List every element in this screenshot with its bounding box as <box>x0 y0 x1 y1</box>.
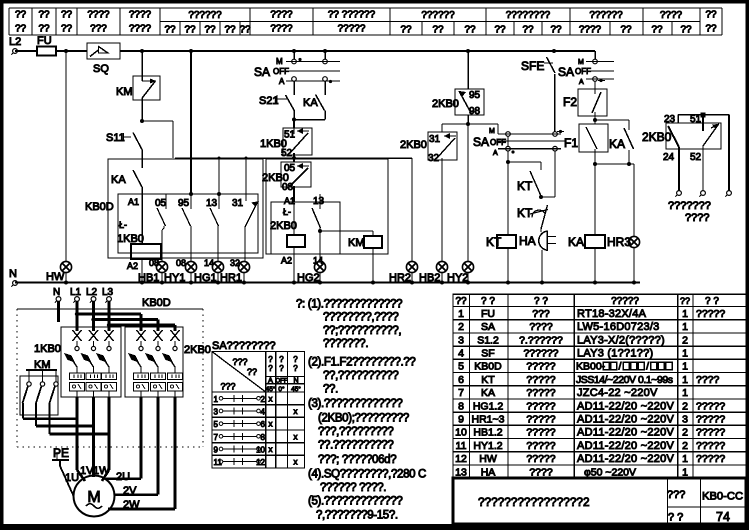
svg-text:?????: ????? <box>696 308 725 320</box>
phase feed L2 <box>92 301 95 331</box>
svg-text:HA: HA <box>481 466 496 478</box>
svg-text:??????: ?????? <box>589 10 623 21</box>
relay contact KA parallel <box>324 81 326 95</box>
svg-text:???????.: ???????. <box>323 338 368 350</box>
svg-text:???: ??? <box>532 308 550 320</box>
svg-text:HW: HW <box>479 453 497 465</box>
wire SA to F2 <box>594 81 596 89</box>
wire to contact 31-32 and SA mid <box>442 123 498 125</box>
svg-text:HR1~3: HR1~3 <box>472 414 505 426</box>
wire L2 bus <box>15 50 37 52</box>
lamp HR3 <box>633 164 635 236</box>
contact 13-14 <box>218 158 220 194</box>
lamp HY2 <box>467 124 469 262</box>
svg-text:10: 10 <box>256 445 265 454</box>
svg-text:08: 08 <box>176 258 186 268</box>
svg-text:12: 12 <box>256 458 265 467</box>
svg-text:?????: ????? <box>526 400 555 412</box>
svg-text:???: ??? <box>90 24 107 35</box>
svg-text:????: ???? <box>696 374 720 386</box>
lamp HG1 <box>212 261 223 272</box>
lamp HB2 <box>436 261 447 272</box>
svg-text:M: M <box>578 59 584 66</box>
svg-text:???????: ??????? <box>668 200 711 212</box>
svg-text:? ?: ? ? <box>481 296 495 307</box>
svg-text:3: 3 <box>682 414 688 426</box>
svg-text:???; ?????06d?: ???; ?????06d? <box>318 454 396 466</box>
phase feed L3 <box>108 301 111 331</box>
coil KA <box>594 164 596 235</box>
svg-text:3: 3 <box>458 334 464 346</box>
svg-text:(3).?????????????: (3).????????????? <box>308 398 402 410</box>
svg-text:(2KB0);?????????: (2KB0);????????? <box>318 413 409 425</box>
svg-text:08: 08 <box>282 182 294 193</box>
svg-text:S11: S11 <box>106 132 125 144</box>
contactor KM pole 1 <box>28 370 30 382</box>
svg-text:??: ?? <box>38 10 50 21</box>
svg-text:2: 2 <box>682 440 688 452</box>
svg-text:2: 2 <box>682 400 688 412</box>
svg-text:?: ? <box>279 364 284 373</box>
breaker 1KB0 pole 3 <box>105 330 114 341</box>
svg-text:A: A <box>268 378 273 385</box>
svg-text:??: ?? <box>239 25 251 36</box>
svg-text:JSS14/~220V 0.1~99s: JSS14/~220V 0.1~99s <box>576 374 673 386</box>
svg-text:??: ?? <box>455 296 467 307</box>
svg-text:F2: F2 <box>563 95 577 109</box>
svg-text:??: ?? <box>651 25 663 36</box>
breaker module 2KB0 box <box>125 327 183 397</box>
svg-text:?: ? <box>268 355 273 364</box>
wire to coil KM <box>320 230 373 232</box>
svg-text:?????: ????? <box>526 453 555 465</box>
svg-text:KT: KT <box>517 206 533 220</box>
selector SA upper M row <box>594 51 596 59</box>
terminal L2 <box>13 49 18 54</box>
svg-text:KM: KM <box>348 237 365 249</box>
svg-text:2KB0: 2KB0 <box>400 139 427 151</box>
svg-text:N: N <box>293 378 298 385</box>
breaker 1KB0 pole 2 <box>89 330 98 341</box>
svg-text:?????: ????? <box>696 440 725 452</box>
svg-text:?????: ????? <box>526 374 555 386</box>
svg-text:HG1.2: HG1.2 <box>473 400 504 412</box>
svg-text:??: ?? <box>15 10 27 21</box>
svg-text:AD11-22/20 ~220V: AD11-22/20 ~220V <box>577 440 674 452</box>
svg-text:????: ???? <box>660 10 683 21</box>
svg-text:?.??????: ?.?????? <box>519 334 563 346</box>
svg-text:??: ?? <box>432 25 444 36</box>
svg-text:52: 52 <box>690 152 702 163</box>
svg-text:????: ???? <box>529 321 553 333</box>
svg-text:51: 51 <box>690 114 702 125</box>
bill of materials table <box>453 294 746 478</box>
svg-text:KB0-CC: KB0-CC <box>702 491 743 503</box>
svg-text:S1.2: S1.2 <box>477 334 499 346</box>
contact 2KB0 95-98 <box>467 51 469 89</box>
svg-text:AD11-22/20 ~220V: AD11-22/20 ~220V <box>577 427 674 439</box>
svg-text:2U: 2U <box>116 471 130 483</box>
breaker module 1KB0 box <box>61 327 121 397</box>
svg-text:Ł-: Ł- <box>283 207 291 217</box>
svg-text:23: 23 <box>664 114 676 125</box>
svg-text:?,???????9-15?.: ?,???????9-15?. <box>316 510 398 522</box>
svg-text:SA: SA <box>473 135 489 149</box>
svg-text:KA: KA <box>481 387 495 399</box>
selector SA right M row <box>497 124 499 134</box>
svg-text:?????: ????? <box>526 440 555 452</box>
svg-text:1: 1 <box>458 308 464 320</box>
breaker 2KB0 pole 1 <box>137 330 146 341</box>
svg-text:45°: 45° <box>291 385 301 393</box>
svg-text:???: ??? <box>220 382 235 392</box>
svg-text:??: ?? <box>705 10 717 21</box>
svg-text:Ł-: Ł- <box>119 220 127 230</box>
contact 95-08 fed from bus <box>190 51 192 194</box>
wire SA-A to KT <box>507 136 509 146</box>
power terminal L2 <box>91 297 96 302</box>
svg-text:1: 1 <box>682 374 688 386</box>
svg-text:??: ?? <box>224 25 236 36</box>
svg-text:L1: L1 <box>70 287 82 298</box>
svg-text:M: M <box>489 128 495 135</box>
svg-text:?????: ????? <box>696 427 725 439</box>
svg-text:95: 95 <box>178 198 190 209</box>
svg-text:KT: KT <box>481 374 495 386</box>
svg-text:1: 1 <box>682 361 688 373</box>
svg-text:N: N <box>9 268 17 280</box>
selector SA left M row <box>293 51 295 59</box>
svg-text:??: ?? <box>61 10 73 21</box>
svg-text:?????? ????.: ?????? ????. <box>320 482 386 494</box>
svg-text:4: 4 <box>261 407 266 416</box>
motor M <box>74 476 115 517</box>
lamp HY1 <box>185 261 196 272</box>
svg-text:???: ??? <box>667 489 685 501</box>
svg-text:KA: KA <box>303 97 318 109</box>
svg-text:OFF: OFF <box>490 138 506 147</box>
svg-text:SA: SA <box>481 321 495 333</box>
svg-text:??;??????????,: ??;??????????, <box>323 325 401 337</box>
svg-text:2KB0: 2KB0 <box>270 220 297 232</box>
contactor KM pole 3 <box>55 370 57 382</box>
svg-text:??: ?? <box>680 25 692 36</box>
svg-text:9: 9 <box>214 445 219 454</box>
svg-text:??: ?? <box>15 24 27 35</box>
svg-text:A: A <box>493 150 498 157</box>
svg-text:L3: L3 <box>102 287 114 298</box>
svg-text:2W: 2W <box>123 499 140 511</box>
wire KM to motor U1 <box>23 417 77 420</box>
svg-text:M: M <box>276 57 283 66</box>
contactor aux contact KM <box>141 51 143 78</box>
power terminal L3 <box>107 297 112 302</box>
svg-text:?: ? <box>293 364 298 373</box>
svg-text:??: ?? <box>494 25 506 36</box>
svg-text:????: ???? <box>579 25 602 36</box>
svg-text:x: x <box>294 432 298 441</box>
svg-text:5: 5 <box>214 420 219 429</box>
svg-text:OFF: OFF <box>276 379 288 385</box>
svg-text:KT: KT <box>517 179 533 193</box>
svg-text:KT: KT <box>486 235 502 249</box>
svg-text:1U: 1U <box>65 472 79 484</box>
svg-text:??: ?? <box>400 25 412 36</box>
svg-text:2: 2 <box>682 427 688 439</box>
svg-text:2: 2 <box>682 334 688 346</box>
svg-text:1W: 1W <box>93 465 110 477</box>
svg-text:24: 24 <box>663 152 675 163</box>
svg-text:??: ?? <box>38 24 50 35</box>
wire to lamp HW <box>65 51 67 262</box>
svg-text:KM: KM <box>116 86 133 98</box>
svg-text:74: 74 <box>716 510 730 524</box>
contactor KM star bar <box>26 369 57 371</box>
svg-text:52: 52 <box>281 148 293 159</box>
dashed enclosure KB0D <box>17 308 203 310</box>
svg-text:N: N <box>53 287 60 298</box>
power terminal L1 <box>75 297 80 302</box>
svg-text:2V: 2V <box>123 485 137 497</box>
svg-text:KB0D: KB0D <box>474 361 502 373</box>
svg-text:PE: PE <box>53 446 69 460</box>
svg-text:?????: ????? <box>338 24 366 35</box>
svg-text:05: 05 <box>155 198 167 209</box>
svg-text:?: ? <box>268 364 273 373</box>
wire S21-KA join <box>294 119 325 121</box>
svg-text:??: ?? <box>184 25 196 36</box>
svg-text:????????,????: ????????,???? <box>323 312 398 324</box>
wire 2KB0 to motor W2 <box>174 397 177 509</box>
svg-text:KB0D: KB0D <box>85 201 114 213</box>
svg-text:SFE: SFE <box>521 59 544 73</box>
svg-text:?????: ????? <box>526 427 555 439</box>
svg-text:2KB0: 2KB0 <box>432 98 459 110</box>
svg-text:φ50 ~220V: φ50 ~220V <box>584 466 636 478</box>
svg-text:A1: A1 <box>128 197 139 207</box>
fuse FU <box>37 47 56 56</box>
svg-text:?: (1).?????????????: ?: (1).????????????? <box>296 299 402 311</box>
timer contact KT <box>540 162 542 170</box>
svg-text:7: 7 <box>214 433 219 442</box>
svg-text:3: 3 <box>214 407 219 416</box>
svg-text:2: 2 <box>261 395 266 404</box>
svg-text:RT18-32X/4A: RT18-32X/4A <box>577 308 647 320</box>
svg-text:A: A <box>579 79 584 86</box>
svg-text:??: ?? <box>247 367 257 377</box>
svg-text:KB00-: KB00- <box>576 361 606 373</box>
lamp HG2 <box>319 231 321 262</box>
title block <box>453 478 746 524</box>
svg-text:32: 32 <box>428 153 440 164</box>
svg-text:x: x <box>269 420 273 429</box>
svg-text:??????: ?????? <box>188 10 222 21</box>
svg-text:KA: KA <box>111 174 126 186</box>
svg-text:?? ??????: ?? ?????? <box>328 10 376 21</box>
start button S21 <box>293 81 295 95</box>
svg-text:13: 13 <box>313 196 325 207</box>
hold wire <box>175 157 412 159</box>
lamp HR2 <box>411 158 413 262</box>
svg-text:31: 31 <box>232 198 244 209</box>
svg-text:13: 13 <box>206 198 218 209</box>
contactor KM box <box>20 376 58 415</box>
svg-text:SA????????: SA???????? <box>212 340 276 352</box>
svg-text:/: / <box>619 361 622 373</box>
neutral bus N <box>13 281 18 286</box>
lamp HB1 <box>156 261 167 272</box>
svg-text:8: 8 <box>458 400 464 412</box>
svg-text:??: ?? <box>164 25 176 36</box>
svg-text:KB0D: KB0D <box>142 297 171 309</box>
svg-text:LW5-16D0723/3: LW5-16D0723/3 <box>577 321 660 333</box>
svg-text:??: ?? <box>522 25 534 36</box>
svg-text:FU: FU <box>37 35 52 47</box>
svg-text:0°: 0° <box>278 385 285 393</box>
svg-text:A2: A2 <box>127 261 138 271</box>
svg-text:OFF: OFF <box>273 67 289 76</box>
element F1 <box>579 124 608 152</box>
svg-text:1: 1 <box>214 395 219 404</box>
svg-text:??: ?? <box>61 24 73 35</box>
svg-text:A: A <box>279 77 285 86</box>
header legend table <box>9 8 722 35</box>
limit switch SQ <box>87 43 120 59</box>
svg-text:6: 6 <box>458 374 464 386</box>
svg-text:1: 1 <box>682 387 688 399</box>
KB0D outer box B <box>266 159 388 254</box>
svg-text:HY1.2: HY1.2 <box>473 440 502 452</box>
svg-text:7: 7 <box>458 387 464 399</box>
svg-text:x: x <box>269 445 273 454</box>
svg-text:??????: ?????? <box>523 348 558 360</box>
lamp HR1 <box>238 261 249 272</box>
svg-text:? ?: ? ? <box>705 296 719 307</box>
svg-text:1: 1 <box>682 453 688 465</box>
svg-text:KA: KA <box>609 137 625 151</box>
lamp HW <box>60 261 71 272</box>
svg-text:2: 2 <box>458 321 464 333</box>
svg-text:1KB0: 1KB0 <box>34 343 61 355</box>
power terminal N <box>56 297 61 302</box>
wire KM to motor V1 <box>36 425 94 428</box>
svg-text:????: ???? <box>129 24 152 35</box>
svg-text:??.: ??. <box>323 384 338 396</box>
svg-text:JZC4-22 ~220V: JZC4-22 ~220V <box>577 387 658 399</box>
svg-text:????: ???? <box>129 10 152 21</box>
svg-text:6: 6 <box>261 420 266 429</box>
svg-text:????: ???? <box>685 212 709 224</box>
svg-text:4: 4 <box>458 348 464 360</box>
svg-text:98: 98 <box>469 106 481 117</box>
svg-text:12: 12 <box>455 453 467 465</box>
svg-text:1: 1 <box>682 348 688 360</box>
svg-text:????: ???? <box>270 24 293 35</box>
svg-text:13: 13 <box>455 466 467 478</box>
svg-text:??: ?? <box>204 25 216 36</box>
terminals of aux contact <box>677 191 682 196</box>
contact 2KB0 05-08 <box>281 162 311 187</box>
svg-text:HA: HA <box>519 234 536 248</box>
svg-text:????????: ???????? <box>506 10 551 21</box>
breaker 2KB0 pole 2 <box>154 330 163 341</box>
svg-text:1: 1 <box>682 321 688 333</box>
svg-text:??: ?? <box>620 25 632 36</box>
svg-text:???,?????????: ???,????????? <box>318 426 393 438</box>
svg-text:AD11-22/20 ~220V: AD11-22/20 ~220V <box>577 400 674 412</box>
svg-text:??: ?? <box>550 25 562 36</box>
svg-text:9: 9 <box>458 414 464 426</box>
svg-text:x: x <box>294 458 298 467</box>
svg-text:AD11-22/20 ~220V: AD11-22/20 ~220V <box>577 453 674 465</box>
svg-text:1: 1 <box>682 308 688 320</box>
breaker 2KB0 pole 3 <box>171 330 180 341</box>
svg-text:FU: FU <box>481 308 495 320</box>
svg-text:?????: ????? <box>526 414 555 426</box>
KB0D outer box A <box>108 159 263 258</box>
svg-text:45°: 45° <box>266 385 276 393</box>
svg-text:/: / <box>646 361 649 373</box>
svg-text:?????: ????? <box>611 296 639 307</box>
element F2 <box>578 89 607 116</box>
svg-text:SA: SA <box>254 65 270 79</box>
svg-text:(4).SQ????????,?280 C: (4).SQ????????,?280 C <box>308 469 426 481</box>
KB0D inner contact box <box>118 194 258 253</box>
relay contact KA right <box>628 120 630 130</box>
svg-text:10: 10 <box>455 427 467 439</box>
svg-text:?????: ????? <box>696 453 725 465</box>
wire KM to motor W1 <box>50 433 110 436</box>
svg-text:??: ?? <box>680 296 690 306</box>
svg-text:A2: A2 <box>281 256 292 266</box>
svg-text:?: ? <box>293 355 298 364</box>
svg-text:AD11-22/20 ~220V: AD11-22/20 ~220V <box>577 414 674 426</box>
wire branch to hold line <box>142 120 173 122</box>
svg-text:SA: SA <box>558 65 574 79</box>
breaker 1KB0 pole 1 <box>73 330 82 341</box>
svg-text:??: ?? <box>705 24 717 35</box>
wire 2KB0 to motor V2 <box>157 397 160 495</box>
svg-text:LAY3-X/2(?????): LAY3-X/2(?????) <box>577 334 665 346</box>
contact 2KB0 31-32 <box>441 124 443 132</box>
svg-text:x: x <box>294 407 298 416</box>
junction dots on bus <box>64 49 68 53</box>
svg-text:KA: KA <box>568 235 584 249</box>
svg-text:L2: L2 <box>86 287 98 298</box>
svg-text:??????: ?????? <box>421 10 455 21</box>
svg-text:11: 11 <box>456 440 467 452</box>
svg-text:????????????????2: ????????????????2 <box>478 495 590 509</box>
svg-text:1V: 1V <box>80 465 94 477</box>
svg-text:1: 1 <box>682 466 688 478</box>
svg-text:5: 5 <box>458 361 464 373</box>
svg-text:??: ?? <box>464 25 476 36</box>
svg-text:2KB0: 2KB0 <box>184 344 211 356</box>
svg-text:????: ???? <box>529 466 553 478</box>
wire 2KB0 to motor U2 <box>140 397 143 479</box>
inner box B <box>271 202 340 254</box>
svg-text:?????: ????? <box>526 361 555 373</box>
svg-text:SQ: SQ <box>93 63 109 75</box>
svg-text:2KB0: 2KB0 <box>642 130 672 144</box>
svg-text:?????: ????? <box>526 387 555 399</box>
svg-text:? ?: ? ? <box>534 296 548 307</box>
svg-text:? ?: ? ? <box>668 512 683 524</box>
svg-text:SF: SF <box>481 348 494 360</box>
svg-text:????: ???? <box>270 10 293 21</box>
svg-text:31: 31 <box>429 134 441 145</box>
wire to KA contact <box>595 119 629 121</box>
